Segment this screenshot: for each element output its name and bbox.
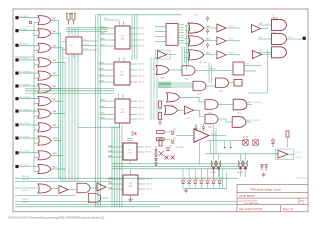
svg-text:BUS_B: BUS_B xyxy=(23,179,30,181)
svg-text:OUT_X: OUT_X xyxy=(145,152,152,154)
svg-text:DRV_EN: DRV_EN xyxy=(209,69,217,71)
wire cap leg xyxy=(213,154,215,161)
polarity marks xyxy=(224,146,232,148)
OR gate G21 xyxy=(188,36,204,46)
svg-text:N$12: N$12 xyxy=(101,26,105,28)
wire G41 to K1 xyxy=(195,70,233,72)
wire VCC rail xyxy=(97,14,182,16)
svg-text:S1 S2: S1 S2 xyxy=(243,137,248,139)
wire net IN_SENSE3 xyxy=(19,110,39,112)
resistor R11 xyxy=(159,113,162,120)
svg-text:4081: 4081 xyxy=(208,113,212,115)
ground R11 xyxy=(158,120,162,125)
resistor R10 xyxy=(159,101,162,108)
wire LED top xyxy=(206,169,208,180)
input pad J7 xyxy=(15,97,18,100)
wire to AND xyxy=(258,24,272,26)
OR gate G6 xyxy=(38,84,51,93)
wire xyxy=(226,27,240,29)
buffer B45 xyxy=(184,106,193,114)
svg-text:N$12: N$12 xyxy=(101,38,105,40)
svg-text:BUS_A: BUS_A xyxy=(23,175,30,178)
wire cap leg xyxy=(245,154,247,161)
wire SV1 right pin xyxy=(178,29,184,31)
wire lower input xyxy=(34,77,39,79)
svg-text:IN_SEL3: IN_SEL3 xyxy=(20,58,29,60)
svg-text:Date: 11/3/13 3:45 PM: Date: 11/3/13 3:45 PM xyxy=(239,208,262,211)
wire LED bottom xyxy=(188,184,190,189)
diode D8 xyxy=(132,132,136,136)
AND gate G51 xyxy=(77,183,90,193)
wire SV1 right pin xyxy=(178,39,184,41)
ground U8 xyxy=(261,172,265,177)
VCC arrow xyxy=(206,16,209,21)
wire lower input xyxy=(34,142,39,144)
wire IC1 right verticals xyxy=(131,15,133,60)
wire G47 to G49 xyxy=(218,119,232,122)
svg-text:10/27/13 9:41 AM C:\Users\use: 10/27/13 9:41 AM C:\Users\user\Documents… xyxy=(8,216,104,219)
wire SV1 left pins xyxy=(155,26,166,28)
capacitor C5 xyxy=(195,124,198,131)
wire LED top xyxy=(219,169,221,180)
wire to op-amp xyxy=(176,135,194,137)
wire LED bottom xyxy=(182,184,184,189)
svg-text:VDD: VDD xyxy=(104,18,109,20)
wire net IN_CTRL1 xyxy=(19,137,39,139)
OR gate G40 xyxy=(156,65,169,74)
op-amp U7 xyxy=(194,129,209,143)
svg-text:N$2: N$2 xyxy=(53,31,56,33)
svg-text:OUT_X: OUT_X xyxy=(138,114,145,116)
svg-text:TITLE: MAX66: TITLE: MAX66 xyxy=(239,195,255,198)
wire B45 to G47 xyxy=(194,110,205,116)
input pad J6 xyxy=(15,84,18,87)
AND gate G49 xyxy=(232,117,246,128)
wire LED top xyxy=(188,169,190,180)
marks above AND column xyxy=(274,17,277,21)
buffer B51 xyxy=(97,183,106,191)
wire LED top xyxy=(200,169,202,180)
svg-text:N$2_SEL: N$2_SEL xyxy=(199,62,207,64)
svg-text:AC/DC: AC/DC xyxy=(211,132,218,135)
AND gate G48 xyxy=(233,99,247,110)
buffer B50 xyxy=(59,186,68,194)
svg-text:BUS_E: BUS_E xyxy=(23,202,30,204)
svg-text:OUT_X: OUT_X xyxy=(145,147,152,149)
component X1 xyxy=(159,151,164,156)
svg-text:OUT_X: OUT_X xyxy=(138,40,145,42)
wire stub xyxy=(15,56,35,58)
wire verticals left of OR col xyxy=(186,25,188,70)
capacitor C13 xyxy=(243,161,247,167)
OR gate G8 xyxy=(38,109,51,118)
testpoint TP1 xyxy=(29,21,32,24)
OR gate G5 xyxy=(38,71,51,80)
wire lower input xyxy=(34,115,39,117)
svg-text:N$12: N$12 xyxy=(109,150,113,152)
svg-text:IN_SENSE1: IN_SENSE1 xyxy=(20,84,32,86)
svg-text:4011: 4011 xyxy=(121,39,125,41)
svg-text:CLK2: CLK2 xyxy=(229,53,234,55)
svg-text:4013: 4013 xyxy=(121,112,125,114)
wire U1 right pins xyxy=(82,40,97,42)
resistor R21 xyxy=(157,138,165,141)
wire LED bottom xyxy=(219,184,221,189)
IC U5 highlighted xyxy=(123,143,137,160)
input pad J10 xyxy=(15,137,18,140)
op-amp U8 xyxy=(278,150,288,158)
svg-text:OUT_X: OUT_X xyxy=(138,46,145,48)
wire output xyxy=(51,88,61,90)
svg-text:N$11: N$11 xyxy=(53,153,57,155)
svg-text:N$12: N$12 xyxy=(100,74,104,76)
component X5 xyxy=(165,156,169,160)
svg-text:4081: 4081 xyxy=(208,127,212,129)
OR gate G50 xyxy=(38,184,51,193)
wire stub xyxy=(224,141,226,147)
connector SV1 xyxy=(166,24,178,46)
wire lower input xyxy=(34,49,39,51)
component box X2 xyxy=(234,80,242,87)
wire lower input xyxy=(34,64,39,66)
OR gate G11 xyxy=(38,151,51,160)
wire net IN_CTRL3 xyxy=(19,166,39,168)
svg-text:OUT_N: OUT_N xyxy=(296,157,303,159)
svg-text:*TBD Simple Voltage Control: *TBD Simple Voltage Control xyxy=(250,188,281,191)
wire or inputs xyxy=(185,51,189,53)
wire vertical bus xyxy=(71,28,73,38)
wire buffer B30 xyxy=(262,54,272,56)
IC U1 oscillator xyxy=(66,37,82,54)
diode D10 xyxy=(171,131,175,134)
svg-text:P+: P+ xyxy=(272,15,274,17)
AND gate G43 xyxy=(216,78,229,88)
capacitor C12 xyxy=(238,161,242,167)
wire K1 out2 xyxy=(244,70,256,72)
wire SV1 down xyxy=(181,46,183,68)
wire verticals mid xyxy=(208,63,210,83)
wire lower input xyxy=(34,129,39,131)
wire xyxy=(204,54,217,56)
wire output xyxy=(51,47,63,49)
wire G43 out xyxy=(228,82,234,84)
OR gate G20 xyxy=(188,23,204,33)
svg-text:N$12: N$12 xyxy=(101,106,105,108)
buffer B21 xyxy=(217,37,226,45)
wire output xyxy=(51,32,61,34)
OR gate G9 xyxy=(38,123,51,132)
svg-text:OUT_X: OUT_X xyxy=(138,107,145,109)
input pad J1 xyxy=(15,16,18,19)
resistor R20 xyxy=(157,131,165,134)
input pad J2 xyxy=(15,29,18,32)
wire chain xyxy=(155,146,157,164)
wire output xyxy=(51,168,65,170)
capacitor C10 xyxy=(211,161,215,167)
AND gate G32 xyxy=(272,47,287,58)
svg-text:Document Number:: Document Number: xyxy=(239,200,258,203)
svg-text:REV:: REV: xyxy=(300,200,305,202)
LED D1 xyxy=(181,181,185,184)
wire output net xyxy=(286,38,302,40)
svg-text:N$12: N$12 xyxy=(101,32,105,34)
buffer A1 xyxy=(157,51,166,59)
svg-text:OUT_X: OUT_X xyxy=(138,119,145,121)
OR gate G4 xyxy=(38,58,51,67)
wire bus horizontal mid xyxy=(112,163,247,165)
AND gate G42 xyxy=(193,81,206,91)
svg-text:N$40 TO_DRV_A: N$40 TO_DRV_A xyxy=(247,101,262,104)
wire xyxy=(68,189,76,191)
title block outline xyxy=(237,184,308,211)
OR gate G1 xyxy=(38,16,51,25)
svg-text:N$5: N$5 xyxy=(53,73,56,75)
input pad J11 xyxy=(15,151,18,154)
wire net IN_SEL1 xyxy=(19,30,39,32)
wire bus horizontal xyxy=(25,88,114,90)
svg-text:4081: 4081 xyxy=(219,91,223,93)
buffer B22 xyxy=(217,51,226,59)
wire vertical bus xyxy=(74,54,76,182)
input pad J12 xyxy=(15,165,18,168)
IC U3 logic xyxy=(114,62,130,85)
wire xyxy=(226,54,240,56)
wire vertical bus xyxy=(77,54,79,182)
svg-text:IN_CTRL2: IN_CTRL2 xyxy=(20,151,30,153)
svg-text:10u 10u: 10u 10u xyxy=(237,172,243,174)
svg-text:N$22: N$22 xyxy=(206,53,210,55)
wire xyxy=(90,187,97,189)
svg-text:N$12: N$12 xyxy=(101,113,105,115)
svg-text:IN_SENSE3: IN_SENSE3 xyxy=(20,109,32,111)
OR gate G22 xyxy=(188,50,204,60)
wire LED bottom xyxy=(206,184,208,189)
svg-text:GND: GND xyxy=(63,57,68,59)
ground below U6 xyxy=(128,197,132,202)
svg-text:CLK0: CLK0 xyxy=(229,26,234,28)
svg-text:4066: 4066 xyxy=(129,186,133,188)
wire LED top xyxy=(182,169,184,180)
wire or inputs xyxy=(185,25,189,27)
capacitor C6 xyxy=(202,124,205,131)
svg-text:OUT_X: OUT_X xyxy=(138,64,145,66)
svg-text:555: 555 xyxy=(129,153,132,155)
svg-text:4011: 4011 xyxy=(237,113,241,115)
wire xyxy=(287,137,289,147)
wire SV1 right pin xyxy=(178,34,184,36)
wire U8 in xyxy=(238,153,278,155)
LED D7 xyxy=(218,181,222,184)
wire vertical bus xyxy=(62,48,64,182)
wire net IN_CTRL0 xyxy=(19,124,39,126)
wire net IN_SENSE0 xyxy=(19,72,39,74)
svg-text:EN1: EN1 xyxy=(259,37,263,39)
AND gate G31 xyxy=(272,33,287,44)
wire net IN_CTRL2 xyxy=(19,152,39,154)
wire net IN_SEL0 xyxy=(19,17,39,19)
wire IC3 right verticals xyxy=(150,57,152,120)
wire G44 to G46 xyxy=(180,97,205,102)
wire vertical bus xyxy=(95,15,97,207)
wire verticals caps xyxy=(213,125,215,154)
wire vertical bus xyxy=(68,54,70,182)
capacitor C11 xyxy=(216,161,220,167)
svg-text:N$4: N$4 xyxy=(53,60,56,62)
svg-text:IN_SEL2: IN_SEL2 xyxy=(20,44,29,46)
svg-text:IN_SEL0: IN_SEL0 xyxy=(20,16,29,18)
wire output xyxy=(51,19,59,21)
wire output xyxy=(51,61,65,63)
svg-text:IN_CTRL3: IN_CTRL3 xyxy=(20,165,30,167)
svg-text:N$6: N$6 xyxy=(53,86,56,88)
bus hatch lines xyxy=(171,82,193,84)
frame border xyxy=(13,9,308,212)
svg-text:IN_SEL1: IN_SEL1 xyxy=(20,29,29,31)
svg-text:IN_SENSE0: IN_SENSE0 xyxy=(20,71,32,73)
svg-text:N$1: N$1 xyxy=(53,18,56,20)
AND gate G30 xyxy=(272,19,287,30)
OR gate G45 xyxy=(165,106,178,115)
wire to AND xyxy=(258,51,272,53)
resistor R12 xyxy=(159,139,162,146)
wire LED bottom xyxy=(194,184,196,189)
IC U4 logic xyxy=(115,99,130,123)
LED D3 xyxy=(193,181,197,184)
wire U1 left pins xyxy=(62,41,66,43)
wire net IN_SEL2 xyxy=(19,44,39,46)
diode D12 xyxy=(271,138,275,147)
svg-text:N$9: N$9 xyxy=(53,125,56,127)
svg-text:P50: P50 xyxy=(84,48,87,50)
wire output xyxy=(51,75,59,77)
svg-text:P41: P41 xyxy=(84,39,87,41)
diode chain D20-D23 xyxy=(155,150,158,153)
wire G48 out xyxy=(246,104,252,106)
diode D9 xyxy=(166,148,170,151)
wire G46 to G48 xyxy=(218,104,233,106)
diode D13 xyxy=(261,165,264,171)
wire crystal grid xyxy=(66,27,108,29)
wire xyxy=(204,40,217,42)
wire G40 to G41 xyxy=(169,69,182,71)
wire net IN_SENSE2 xyxy=(19,98,39,100)
svg-text:BUS_D: BUS_D xyxy=(23,199,30,201)
svg-text:IN_CTRL1: IN_CTRL1 xyxy=(20,136,30,138)
wire vertical bus xyxy=(60,33,62,180)
wire riser xyxy=(222,169,224,189)
wire LED bottom xyxy=(213,184,215,189)
wire lower input xyxy=(34,90,39,92)
buffer B20 xyxy=(217,24,226,32)
svg-text:OUT_X: OUT_X xyxy=(138,28,145,30)
svg-text:EN0: EN0 xyxy=(259,23,263,25)
input pad J8 xyxy=(15,110,18,113)
input pad J5 xyxy=(15,72,18,75)
svg-text:N$21: N$21 xyxy=(206,39,210,41)
svg-text:N$12: N$12 xyxy=(53,167,58,169)
wire or inputs xyxy=(185,37,189,39)
wire U1 bottom pin xyxy=(73,54,75,58)
wire output xyxy=(51,113,65,115)
wire G42 out xyxy=(206,85,215,87)
svg-text:4081: 4081 xyxy=(197,94,201,96)
svg-text:N$12: N$12 xyxy=(109,187,113,189)
svg-text:N$12: N$12 xyxy=(101,100,105,102)
svg-text:OUT_X: OUT_X xyxy=(138,101,145,103)
wire LED bus xyxy=(183,187,227,189)
wire cap bus xyxy=(205,153,238,155)
IC U2 logic xyxy=(115,26,130,49)
diode D11 xyxy=(171,140,175,143)
svg-text:N$12: N$12 xyxy=(100,80,104,82)
svg-text:OUT_P: OUT_P xyxy=(296,152,303,154)
component X4 xyxy=(253,140,258,145)
component X6 xyxy=(171,156,175,160)
wire vertical bus xyxy=(116,126,118,207)
wire U8 out xyxy=(288,153,295,155)
wire output xyxy=(51,126,59,128)
VCC arrow xyxy=(206,29,209,34)
wire LED top xyxy=(213,169,215,180)
svg-text:N$12: N$12 xyxy=(109,182,113,184)
wire vertical bus xyxy=(119,126,121,207)
wire op-amp out xyxy=(209,135,226,137)
svg-text:P45.5: P45.5 xyxy=(84,44,89,46)
svg-text:F-xx MAX6 R-x: F-xx MAX6 R-x xyxy=(244,202,260,205)
wire xyxy=(101,197,109,199)
wire buffer B31 xyxy=(261,28,268,30)
LED D4 xyxy=(200,181,204,184)
output pad xyxy=(303,37,306,40)
wire vertical bus xyxy=(97,15,99,207)
svg-text:N$12: N$12 xyxy=(109,155,113,157)
AND gate G41 xyxy=(182,66,195,76)
wire cluster xyxy=(164,131,170,133)
svg-text:10u 10u: 10u 10u xyxy=(210,172,216,174)
svg-text:N$20: N$20 xyxy=(206,26,210,28)
wire vertical input bus xyxy=(33,23,35,172)
component X3 xyxy=(243,140,248,145)
wire G49 out xyxy=(245,121,252,123)
crystal Y2 xyxy=(72,14,75,25)
wire vertical bus xyxy=(74,28,76,38)
wire lower input xyxy=(34,171,39,173)
wire xyxy=(204,27,217,29)
wire vertical bus xyxy=(111,126,113,207)
svg-text:N$12: N$12 xyxy=(109,177,113,179)
svg-text:IN_CTRL0: IN_CTRL0 xyxy=(20,123,30,125)
svg-text:TP1: TP1 xyxy=(27,26,30,28)
AND gate G52 xyxy=(88,193,100,202)
OR gate G2 xyxy=(38,29,51,38)
wire bus bottom xyxy=(15,177,238,179)
bus hatch dense xyxy=(158,81,171,83)
IC U6 logic xyxy=(123,175,138,195)
AND gate G47 xyxy=(205,114,218,124)
svg-text:N$12: N$12 xyxy=(100,68,104,70)
wire output xyxy=(51,154,63,156)
buffer B30 xyxy=(252,51,261,59)
wire lower input xyxy=(34,157,39,159)
LED D2 xyxy=(187,181,191,184)
wire lower input xyxy=(34,22,39,24)
svg-text:OUT_X: OUT_X xyxy=(138,70,145,72)
component K1 box xyxy=(233,62,244,75)
svg-text:4081: 4081 xyxy=(185,79,189,81)
AND gate G46 xyxy=(205,100,218,110)
wire G45 to B45 xyxy=(178,109,185,111)
wire LED bottom xyxy=(200,184,202,189)
